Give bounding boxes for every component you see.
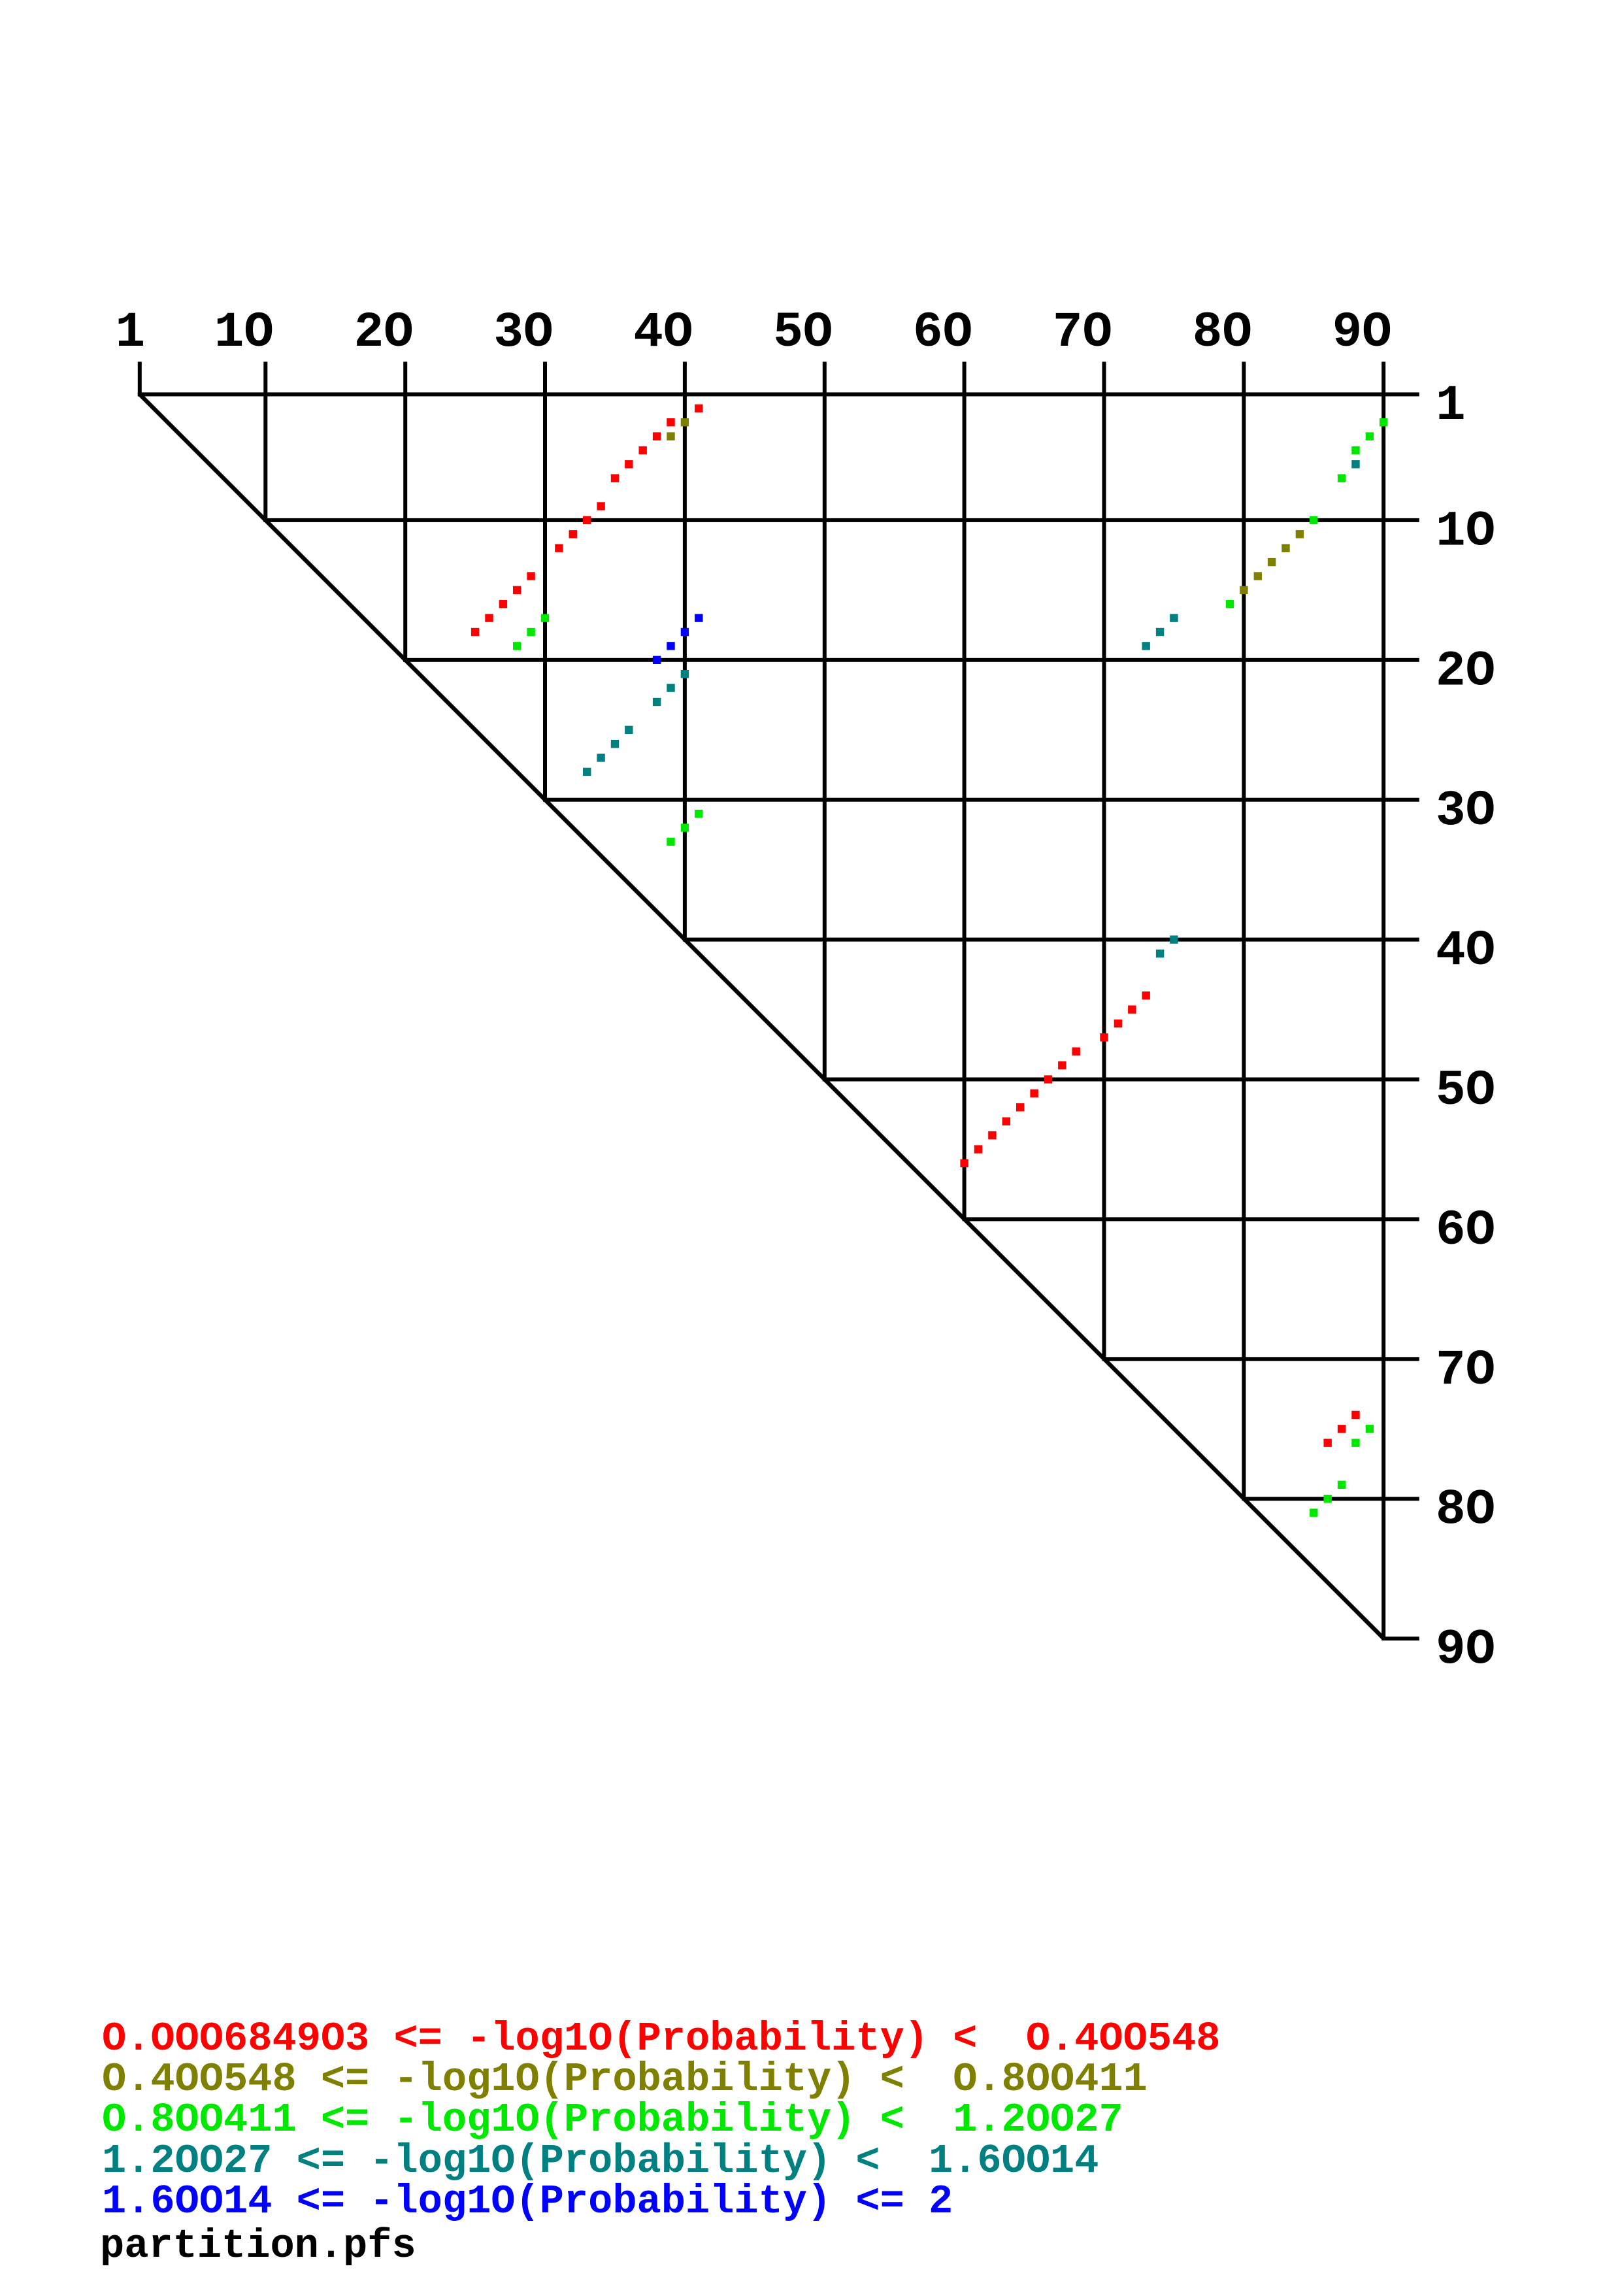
svg-text:1O: 1O: [1436, 503, 1495, 559]
vertical grid line column 50: [823, 362, 827, 1082]
svg-text:1: 1: [115, 305, 145, 361]
svg-text:3O: 3O: [493, 305, 553, 361]
green class 3 (0.800411<=-log10(P)<1.20027) probability dots: [1380, 418, 1387, 426]
horizontal grid line row 10: [263, 518, 1419, 522]
red class 1 (0.000684903<=-log10(P)<0.400548) probability dots: [695, 405, 703, 412]
svg-text:2O: 2O: [1436, 643, 1495, 699]
svg-text:1: 1: [1436, 378, 1466, 434]
svg-text:1.6OO14 <= -log1O(Probability): 1.6OO14 <= -log1O(Probability) <= 2: [102, 2178, 953, 2225]
svg-text:1.2OO27 <= -log1O(Probability): 1.2OO27 <= -log1O(Probability) < 1.6OO14: [102, 2138, 1099, 2184]
svg-text:O.OOO6849O3 <= -log1O(Probabil: O.OOO6849O3 <= -log1O(Probability) < O.4…: [102, 2016, 1220, 2062]
svg-text:9O: 9O: [1332, 305, 1392, 361]
svg-text:7O: 7O: [1436, 1342, 1495, 1399]
horizontal grid line row 90: [1382, 1637, 1419, 1640]
vertical grid line column 20: [403, 362, 407, 662]
svg-text:5O: 5O: [773, 305, 833, 361]
svg-text:5O: 5O: [1436, 1063, 1495, 1119]
vertical grid line column 10: [263, 362, 267, 522]
svg-text:8O: 8O: [1193, 305, 1252, 361]
vertical grid line column 40: [683, 362, 687, 942]
horizontal grid line row 60: [963, 1217, 1419, 1221]
vertical grid line column 80: [1242, 362, 1246, 1501]
vertical grid line column 30: [543, 362, 547, 802]
svg-text:9O: 9O: [1436, 1622, 1495, 1678]
svg-text:7O: 7O: [1053, 305, 1112, 361]
svg-text:1O: 1O: [214, 305, 274, 361]
vertical grid line column 70: [1102, 362, 1106, 1361]
tick column 1: [138, 362, 142, 397]
svg-text:partition.pfs: partition.pfs: [100, 2223, 416, 2269]
horizontal grid line row 50: [823, 1078, 1419, 1082]
horizontal grid line row 40: [683, 938, 1419, 942]
olive class 2 (0.400548<=-log10(P)<0.800411) probability dots: [681, 418, 689, 426]
horizontal grid line row 30: [543, 798, 1419, 802]
svg-text:O.4OO548 <= -log1O(Probability: O.4OO548 <= -log1O(Probability) < O.8OO4…: [102, 2056, 1148, 2103]
svg-text:2O: 2O: [354, 305, 414, 361]
svg-text:8O: 8O: [1436, 1482, 1495, 1539]
svg-text:4O: 4O: [633, 305, 693, 361]
blue class 5 (1.60014<=-log10(P)<=2) probability dots: [695, 614, 703, 622]
diagonal (sequence identity line): [140, 394, 1383, 1638]
svg-text:4O: 4O: [1436, 923, 1495, 979]
horizontal grid line row 20: [403, 658, 1419, 662]
x-axis top line (row 1): [138, 392, 1419, 396]
svg-text:3O: 3O: [1436, 783, 1495, 839]
svg-text:6O: 6O: [913, 305, 972, 361]
svg-text:6O: 6O: [1436, 1203, 1495, 1259]
teal class 4 (1.20027<=-log10(P)<1.60014) probability dots: [1351, 460, 1359, 468]
vertical grid line column 90: [1381, 362, 1385, 1640]
svg-text:O.8OO411 <= -log1O(Probability: O.8OO411 <= -log1O(Probability) < 1.2OO2…: [102, 2097, 1123, 2143]
horizontal grid line row 70: [1102, 1357, 1419, 1361]
vertical grid line column 60: [963, 362, 967, 1222]
horizontal grid line row 80: [1242, 1497, 1419, 1501]
